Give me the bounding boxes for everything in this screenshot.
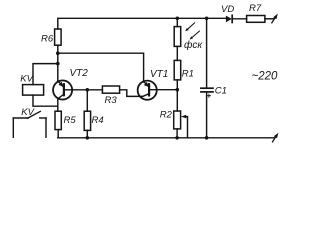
svg-text:R5: R5 <box>64 115 77 126</box>
svg-text:фск: фск <box>184 39 203 51</box>
terminal arrow bottom right <box>273 133 279 142</box>
svg-text:R4: R4 <box>92 115 104 126</box>
svg-text:KV: KV <box>20 74 34 85</box>
svg-text:R6: R6 <box>41 33 54 44</box>
wire VT2 base to R3 <box>64 89 103 91</box>
svg-text:R1: R1 <box>182 68 194 79</box>
svg-text:R3: R3 <box>105 95 118 106</box>
node dot VT2 base / R4 <box>86 88 90 92</box>
node dot junction relay branch <box>56 62 60 66</box>
resistor R4 <box>84 90 90 138</box>
svg-text:VT2: VT2 <box>70 68 89 79</box>
capacitor C1 <box>201 18 213 138</box>
svg-text:C1: C1 <box>215 86 227 97</box>
wire VT1 base to R1/R2 junction <box>149 89 177 91</box>
wire R6 bottom to VT2 <box>57 45 59 81</box>
node dot C1 bottom <box>205 136 209 140</box>
terminal arrow top right <box>272 14 278 23</box>
transistor VT1 <box>138 81 157 100</box>
diode VD <box>226 15 232 22</box>
relay contact KV <box>13 111 46 137</box>
wire top bus after R7 to terminal <box>265 18 274 20</box>
svg-text:KV: KV <box>21 107 35 118</box>
svg-text:R7: R7 <box>249 3 262 14</box>
light arrow 1 <box>185 23 194 31</box>
wire top bus left section <box>58 18 227 29</box>
wire relay coil bottom to VT2 collector line <box>33 95 58 106</box>
wire branch to relay coil top <box>33 64 58 85</box>
resistor R2 variable <box>174 111 188 138</box>
resistor R6 <box>55 29 62 45</box>
node dot R2 bottom <box>175 136 179 140</box>
svg-text:VD: VD <box>221 4 234 15</box>
transistor VT2 <box>53 80 72 99</box>
light arrow 2 <box>190 31 200 39</box>
photoresistor fsk <box>174 18 181 60</box>
resistor R3 <box>102 86 119 93</box>
wire top bus between diode and R7 <box>232 18 246 20</box>
wire R3 to VT1 collector <box>120 90 143 97</box>
node dot junction R6/VT1 branch <box>56 51 60 55</box>
node dot photoresistor top <box>176 17 180 21</box>
node dot R1/R2/VT1 base <box>176 88 180 92</box>
svg-text:R2: R2 <box>160 109 173 120</box>
node dot C1 top <box>205 17 209 21</box>
resistor R1 <box>174 60 181 111</box>
wire branch to VT1 emitter <box>58 53 144 82</box>
wire bottom bus <box>58 137 274 139</box>
svg-text:~220: ~220 <box>252 71 279 83</box>
wire R5 bottom <box>57 130 59 138</box>
svg-text:VT1: VT1 <box>150 69 168 80</box>
node dot R4 bottom <box>86 136 90 140</box>
resistor R7 <box>247 16 265 23</box>
wire VT2 collector to R5 <box>57 99 59 111</box>
relay coil KV <box>23 85 44 96</box>
resistor R5 <box>55 111 61 129</box>
